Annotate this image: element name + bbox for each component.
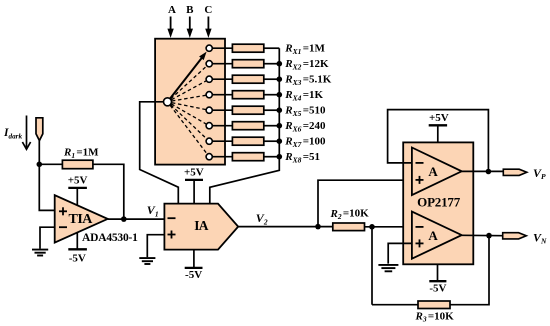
wire RX4 to bus xyxy=(264,94,280,96)
svg-text:A: A xyxy=(428,228,438,243)
wire V2 to top amp + input xyxy=(318,180,412,226)
IA plus sign xyxy=(168,231,176,239)
svg-text:RX5=510: RX5=510 xyxy=(284,105,326,118)
contact 6 xyxy=(206,123,232,129)
op-amp U2A top xyxy=(412,148,462,196)
op-amp U2B bottom xyxy=(412,212,462,259)
svg-text:IA: IA xyxy=(194,218,208,233)
bottom amp minus sign xyxy=(416,226,424,228)
svg-text:+5V: +5V xyxy=(184,167,204,179)
power +5V OP2177 xyxy=(429,112,449,143)
op-amp TIA (ADA4530-1) xyxy=(55,195,108,242)
svg-text:RX8=51: RX8=51 xyxy=(284,151,320,164)
resistor RX8 xyxy=(232,153,263,161)
wire node to TIA + input xyxy=(39,164,54,210)
resistor R1 xyxy=(62,160,93,169)
node bus RX8 xyxy=(277,154,283,160)
wire feedback branch down to R3 xyxy=(371,227,373,305)
wire RX6 to bus xyxy=(264,125,280,127)
op-amp IA xyxy=(164,204,238,250)
svg-text:C: C xyxy=(204,4,212,16)
resistor R2 xyxy=(333,223,365,231)
node V2 branch xyxy=(315,224,321,230)
switch box xyxy=(155,39,225,165)
svg-text:+5V: +5V xyxy=(429,112,449,124)
wire common contact to IA left gain pin xyxy=(140,102,179,204)
svg-text:+5V: +5V xyxy=(68,174,88,186)
arrow A xyxy=(167,17,173,38)
wire RX7 to bus xyxy=(264,140,280,142)
wire R3 feedback loop xyxy=(450,236,489,305)
wire TIA - input to ground xyxy=(40,227,55,249)
input pin terminal xyxy=(36,118,43,141)
resistor RX2 xyxy=(232,60,263,68)
wire RX5 to bus xyxy=(264,109,280,111)
wire node to R1 xyxy=(39,163,62,165)
resistor RX5 xyxy=(232,106,263,114)
svg-text:-5V: -5V xyxy=(185,269,202,281)
contact 2 xyxy=(206,61,232,67)
node TIA output / R1 feedback xyxy=(121,216,127,222)
node bus RX7 xyxy=(277,138,283,144)
power +5V TIA xyxy=(68,174,88,205)
arrow B xyxy=(187,17,193,38)
wire top amp output xyxy=(462,170,504,172)
wire V2 rail xyxy=(238,226,333,228)
wire bottom amp output xyxy=(462,234,503,236)
wire TIA output to IA xyxy=(108,218,165,220)
svg-text:A: A xyxy=(428,164,438,179)
contact 8 xyxy=(206,154,232,160)
contact 7 xyxy=(206,138,232,144)
ground OP2177 xyxy=(378,265,398,271)
node bus RX4 xyxy=(277,92,283,98)
node top amp output xyxy=(486,169,492,175)
wire input pin to node xyxy=(38,141,40,165)
node R2 feedback branch xyxy=(369,224,375,230)
resistor RX1 xyxy=(232,44,263,52)
power -5V IA xyxy=(185,250,203,281)
top amp minus sign xyxy=(416,162,424,164)
wire R2 to bottom amp - input xyxy=(365,226,412,228)
wire RX3 to bus xyxy=(264,78,280,80)
svg-text:TIA: TIA xyxy=(69,212,94,227)
TIA minus sign xyxy=(59,226,67,228)
box OP2177 xyxy=(403,142,473,264)
power -5V OP2177 xyxy=(429,264,446,294)
power -5V TIA xyxy=(68,233,87,265)
svg-text:ADA4530-1: ADA4530-1 xyxy=(82,232,138,244)
dashed contact lines xyxy=(170,66,207,154)
node bus RX5 xyxy=(277,107,283,113)
svg-text:A: A xyxy=(168,4,176,16)
output pin VN xyxy=(503,233,527,239)
contact 1 xyxy=(206,45,232,51)
svg-text:R1=1M: R1=1M xyxy=(63,147,99,160)
svg-text:RX7=100: RX7=100 xyxy=(284,136,326,149)
svg-text:R3=10K: R3=10K xyxy=(415,310,455,323)
svg-text:R2=10K: R2=10K xyxy=(330,208,370,221)
contact 4 xyxy=(206,92,232,98)
wire RX2 to bus xyxy=(264,63,280,65)
TIA plus sign xyxy=(59,207,67,215)
svg-text:RX3=5.1K: RX3=5.1K xyxy=(284,74,331,87)
wire bottom amp + input to ground xyxy=(388,243,412,263)
node bottom amp output xyxy=(486,233,492,239)
wire RX8 to bus xyxy=(264,156,280,158)
svg-text:B: B xyxy=(186,4,194,16)
top amp plus sign xyxy=(416,176,424,184)
node input junction xyxy=(37,162,43,168)
common contact xyxy=(164,98,172,106)
resistor RX7 xyxy=(232,137,263,145)
resistor RX4 xyxy=(232,91,263,99)
ground IA xyxy=(139,258,155,264)
IA minus sign xyxy=(168,217,176,219)
wire top amp feedback loop xyxy=(388,110,489,172)
ground TIA xyxy=(32,250,48,256)
power +5V IA xyxy=(184,167,204,204)
wire RX1 to bus xyxy=(264,47,280,49)
resistor RX6 xyxy=(232,122,263,130)
svg-text:RX1=1M: RX1=1M xyxy=(284,43,325,56)
svg-text:-5V: -5V xyxy=(429,283,446,295)
wire resistor bus to IA right gain pin xyxy=(210,48,279,203)
arrow C xyxy=(205,17,211,38)
bottom amp plus sign xyxy=(416,239,424,247)
resistor R3 xyxy=(418,301,450,309)
svg-text:RX4=1K: RX4=1K xyxy=(284,89,323,102)
arrow Idark current direction xyxy=(22,116,30,150)
contact 3 xyxy=(206,76,232,82)
output pin VP xyxy=(503,169,527,175)
node bus RX6 xyxy=(277,123,283,129)
svg-text:RX2=12K: RX2=12K xyxy=(284,58,329,71)
svg-text:OP2177: OP2177 xyxy=(417,195,461,210)
svg-text:-5V: -5V xyxy=(69,252,86,264)
wire R1 to output node xyxy=(93,164,124,219)
resistor RX3 xyxy=(232,75,263,83)
selector arrow xyxy=(170,52,206,99)
wire R3 to branch xyxy=(372,304,418,306)
node bus RX2 xyxy=(277,61,283,67)
wire IA + input to ground xyxy=(147,235,164,258)
svg-text:RX6=240: RX6=240 xyxy=(284,120,326,133)
node bus RX3 xyxy=(277,76,283,82)
contact 5 xyxy=(206,107,232,113)
